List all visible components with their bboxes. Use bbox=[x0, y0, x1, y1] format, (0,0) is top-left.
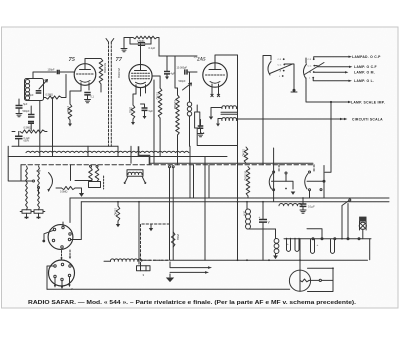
bus H3 bbox=[8, 156, 227, 158]
label R2 bbox=[66, 106, 70, 112]
switch S5 arc bbox=[305, 174, 308, 190]
svg-text:25.000Ω: 25.000Ω bbox=[117, 68, 121, 78]
label R6 bbox=[129, 107, 132, 113]
capacitor C17 pair bbox=[331, 239, 335, 254]
capacitor C13 electrolytic bbox=[259, 202, 271, 229]
wire C5 bbox=[30, 106, 32, 131]
tube V3 lead arrows bbox=[211, 94, 220, 96]
switch S2 contacts bbox=[312, 58, 315, 78]
switch S4 wire bbox=[285, 174, 287, 181]
svg-text:0.1MΩ: 0.1MΩ bbox=[242, 149, 245, 157]
svg-text:RADIO SAFAR. — Mod. « 544 ». –: RADIO SAFAR. — Mod. « 544 ». – Parte riv… bbox=[28, 300, 357, 306]
switch S1 wiper bbox=[270, 64, 293, 74]
capacitor C15 pair bbox=[295, 238, 299, 251]
socket SK2 left lead bbox=[47, 266, 54, 289]
label R16 bbox=[243, 171, 246, 181]
switch S2 wiper bbox=[305, 63, 325, 75]
label 100pF C2 bbox=[48, 69, 56, 72]
capacitor C8 5u bbox=[142, 108, 148, 110]
label R4 bbox=[24, 126, 32, 129]
wire V1 plate top bbox=[85, 59, 101, 64]
wire T1 top to grid bbox=[33, 72, 56, 79]
socket SK1 bottom leads bbox=[60, 250, 71, 260]
capacitor C7 0.1 bbox=[138, 43, 145, 45]
transformer T2 primary bbox=[222, 106, 237, 109]
heater coil L5 bbox=[104, 259, 142, 261]
capacitor C19 5uF bbox=[16, 99, 28, 117]
label DP bbox=[37, 170, 42, 173]
svg-text:0.5MΩ: 0.5MΩ bbox=[60, 191, 68, 194]
svg-text:75: 75 bbox=[69, 56, 76, 63]
switch S1 contact labels bbox=[278, 59, 282, 78]
svg-text:0.1μF: 0.1μF bbox=[149, 46, 156, 50]
wire V1 cathode drop bbox=[70, 91, 81, 104]
label lamp scale bbox=[351, 101, 385, 105]
vertical x273 bbox=[273, 148, 275, 201]
resistor R16 bbox=[246, 167, 250, 199]
wire C9 bbox=[165, 56, 169, 80]
tube V3 envelope bbox=[203, 63, 227, 87]
wire v118 bbox=[117, 146, 119, 156]
socket SK2 bbox=[49, 260, 75, 286]
label shield bbox=[117, 68, 121, 78]
wire C7 bbox=[130, 38, 151, 45]
contact pair bbox=[169, 166, 175, 260]
box right edge bbox=[323, 166, 325, 199]
wire box left bbox=[20, 165, 22, 181]
wire V2 sg bbox=[153, 80, 155, 163]
rail junctions bbox=[246, 259, 301, 261]
wire R10 bbox=[56, 188, 84, 197]
capacitor C10 10000pF bbox=[185, 69, 187, 74]
speaker frame bbox=[308, 268, 334, 291]
speaker SP cone bbox=[289, 270, 310, 291]
junction scala bbox=[330, 101, 332, 103]
wire R6 bbox=[131, 94, 136, 125]
label C9 bbox=[171, 73, 176, 76]
label plug 3 bbox=[143, 273, 145, 277]
coil L1 bbox=[187, 102, 191, 116]
label C18 bbox=[308, 205, 315, 209]
grid capacitor C2 bbox=[57, 70, 59, 74]
bus junction dots bbox=[117, 197, 304, 261]
speaker field coil L2 bbox=[279, 204, 302, 206]
resistor R11 top circle bbox=[90, 165, 92, 167]
label lamp1 bbox=[352, 55, 381, 59]
choke L4 bbox=[268, 229, 279, 259]
socket SK1 pins bbox=[52, 226, 71, 248]
switch S2 stem bbox=[305, 58, 307, 63]
switch S4 wiper bbox=[272, 181, 296, 195]
svg-text:0.5MΩ: 0.5MΩ bbox=[46, 93, 54, 96]
capacitor C1 in T1 bbox=[36, 91, 42, 93]
caption bbox=[28, 300, 357, 306]
tube V1 plate bbox=[80, 64, 91, 70]
bus H6 bbox=[70, 197, 389, 199]
svg-text:C.C: C.C bbox=[308, 66, 312, 68]
switch S5 wiper bbox=[307, 180, 323, 182]
speaker center line bbox=[299, 270, 301, 291]
wire R13 bbox=[116, 202, 120, 228]
switch S4 arc bbox=[269, 174, 272, 190]
wire R7 bbox=[159, 76, 161, 157]
wire R8 bbox=[177, 88, 179, 165]
ground R5 left bbox=[121, 49, 127, 52]
label R7 bbox=[156, 92, 159, 100]
wire lamp line 4 bbox=[313, 78, 352, 82]
speaker voice coil bbox=[300, 279, 309, 282]
svg-text:0.1MΩ: 0.1MΩ bbox=[156, 92, 159, 100]
wire v131 bbox=[130, 146, 132, 163]
tube V2 grids bbox=[132, 73, 150, 79]
switch S3 contacts bbox=[22, 180, 40, 194]
svg-text:2A5: 2A5 bbox=[196, 57, 206, 63]
svg-text:500pF: 500pF bbox=[179, 80, 187, 83]
resistor R8 bbox=[176, 95, 180, 135]
wire T2 right bbox=[237, 55, 238, 260]
wire scala down bbox=[325, 102, 331, 172]
label lamp3 bbox=[354, 71, 375, 75]
wire lamp line 3 bbox=[314, 71, 349, 73]
label C8 bbox=[149, 110, 154, 113]
tube V2 plate bbox=[135, 64, 147, 70]
tube V2 77 label bbox=[116, 56, 123, 63]
wire C2 to V1 grid bbox=[59, 71, 74, 73]
svg-text:C.C: C.C bbox=[278, 65, 282, 67]
svg-text:50.000Ω: 50.000Ω bbox=[103, 63, 107, 73]
svg-text:5μF: 5μF bbox=[23, 103, 28, 106]
noise filter def bbox=[0, 0, 1, 1]
tube V3 plate bbox=[209, 63, 221, 70]
dashed box arrow bbox=[149, 224, 153, 231]
switch S1 arc bbox=[268, 62, 271, 76]
tube V1 leads bbox=[81, 83, 89, 91]
label R8 bbox=[173, 100, 176, 109]
switch S2 contact labels bbox=[308, 59, 312, 79]
wire R1 to C4 bbox=[100, 84, 102, 92]
resistor R3 0.5M bbox=[46, 96, 62, 99]
tube V3 grid bbox=[206, 74, 225, 76]
wire C8 bbox=[141, 104, 147, 119]
label R14 bbox=[176, 234, 179, 240]
capacitor C6 bbox=[15, 136, 23, 138]
fuse F2 bbox=[32, 166, 45, 219]
transformer T2 secondary bbox=[222, 118, 237, 121]
capacitor C16 pair bbox=[311, 239, 319, 254]
ground arrow big bbox=[166, 274, 174, 282]
wire filter bus bbox=[284, 238, 371, 240]
label R1 bbox=[103, 63, 107, 73]
svg-text:LAMPAD. O C.P: LAMPAD. O C.P bbox=[352, 55, 381, 59]
wire T1 bottom bbox=[39, 101, 41, 157]
resistor R4 0.5M bbox=[20, 130, 45, 133]
label R15 bbox=[242, 149, 245, 157]
switch S5 wires bbox=[310, 182, 325, 198]
svg-text:500pF: 500pF bbox=[23, 110, 31, 113]
bus H1b bbox=[200, 145, 238, 147]
trimmer arrow T1 bbox=[39, 80, 48, 90]
svg-text:+: + bbox=[259, 215, 261, 219]
svg-text:10.000pF: 10.000pF bbox=[177, 67, 188, 70]
capacitor C9 4u bbox=[164, 72, 170, 74]
bus H1 bbox=[12, 145, 118, 147]
wire C12 bbox=[198, 120, 204, 137]
resistor block box bbox=[89, 182, 101, 188]
wire lamp line 1 bbox=[314, 56, 352, 60]
switch S6 bbox=[342, 198, 351, 239]
wire T2 sec to scale lamps bbox=[237, 118, 345, 121]
trimmer C11 bbox=[183, 83, 192, 90]
IF transformer T1 primary coil bbox=[25, 80, 29, 101]
vertical x263 top bbox=[262, 148, 264, 165]
socket SK2 pins bbox=[54, 263, 71, 280]
svg-text:500pF: 500pF bbox=[27, 94, 35, 97]
wire left edge bbox=[8, 146, 32, 181]
label R3 bbox=[46, 93, 54, 96]
filter dots bbox=[286, 238, 360, 240]
svg-text:0.5MΩ: 0.5MΩ bbox=[24, 126, 32, 129]
wire C4 down + ground bbox=[85, 95, 91, 103]
wire top link bbox=[159, 56, 197, 88]
resistor R9 box bbox=[195, 112, 200, 128]
svg-text:600V: 600V bbox=[24, 140, 30, 143]
socket SK1 top leads bbox=[63, 198, 70, 226]
shield top bbox=[106, 39, 114, 43]
switch S1 stem bbox=[263, 56, 271, 165]
svg-text:100pF: 100pF bbox=[48, 69, 56, 72]
bus H5 dashed bbox=[21, 164, 313, 166]
svg-text:+: + bbox=[317, 243, 319, 247]
tube V3 cathode bbox=[210, 82, 220, 84]
heater wavy bus bbox=[26, 151, 189, 152]
capacitor C14 pair bbox=[287, 238, 291, 251]
bottom long wire bbox=[47, 288, 290, 290]
resistor R12 top circle bbox=[96, 165, 98, 167]
switch S5 contacts bbox=[309, 171, 326, 191]
resistor R13 bbox=[116, 206, 120, 221]
resistor R6 250 bbox=[131, 105, 135, 119]
svg-text:0.1MΩ: 0.1MΩ bbox=[114, 208, 117, 216]
resistor R15 bbox=[244, 147, 248, 163]
wire T2 sec left ground bbox=[216, 119, 222, 127]
wire right drop bbox=[348, 204, 370, 260]
pilot lamp LP1 bbox=[359, 217, 366, 239]
label C4b bbox=[91, 96, 95, 99]
wire R5 loop bbox=[124, 38, 159, 57]
step wire thick bbox=[139, 146, 150, 165]
tube V1 grid bbox=[77, 73, 94, 75]
label F pin bbox=[72, 288, 74, 291]
label R10 bbox=[60, 191, 68, 194]
socket SK1 bbox=[48, 225, 73, 250]
label L3 bbox=[242, 211, 245, 216]
svg-text:LAMP. O C.F: LAMP. O C.F bbox=[354, 65, 377, 69]
socket SK2 bottom leads bbox=[54, 277, 71, 290]
wire v88 bbox=[87, 146, 89, 156]
wire S2 down bbox=[306, 78, 351, 103]
speaker top dot bbox=[332, 267, 334, 269]
svg-text:LAMP. O L.: LAMP. O L. bbox=[354, 79, 374, 83]
tube V1 75 envelope bbox=[74, 64, 96, 86]
wire R3 to bus bbox=[44, 75, 66, 157]
bus H7 bbox=[81, 201, 389, 203]
svg-text:250Ω: 250Ω bbox=[129, 107, 132, 113]
linkage dashed bbox=[279, 165, 314, 173]
wire rail drops bbox=[263, 229, 322, 271]
wire R10 tap bbox=[75, 180, 92, 182]
wire plug feed bbox=[138, 202, 140, 264]
svg-text:0.1μF: 0.1μF bbox=[308, 205, 315, 209]
dotted lead bbox=[103, 176, 105, 189]
resistor R12 bbox=[95, 168, 99, 182]
capacitor C4 bbox=[84, 93, 90, 95]
capacitor C12 bbox=[198, 126, 204, 128]
label 500pF C1 bbox=[27, 94, 35, 97]
wire V2 plate right bbox=[152, 75, 160, 77]
socket SK1 right lead bbox=[71, 202, 82, 240]
tube V2 leads bbox=[136, 85, 146, 96]
svg-text:CIRCUITI SCALA: CIRCUITI SCALA bbox=[352, 118, 383, 122]
svg-text:LAMP. SCALE IMP.: LAMP. SCALE IMP. bbox=[351, 101, 385, 105]
label C11 bbox=[179, 80, 187, 83]
output arrows bbox=[170, 262, 212, 274]
tube V2 envelope bbox=[129, 64, 152, 87]
tube V3 leads bbox=[212, 84, 219, 96]
resistor R10 bbox=[62, 186, 76, 189]
resistor R7 bbox=[158, 88, 162, 118]
pilot coil T3 bbox=[128, 172, 142, 174]
svg-text:50.000Ω: 50.000Ω bbox=[243, 171, 246, 181]
resistor R5 0.5M top bbox=[133, 36, 157, 39]
bus H4 bbox=[150, 162, 313, 164]
switch S1 contacts bbox=[282, 58, 285, 77]
label R13 bbox=[114, 208, 117, 216]
wire lamp line 2 bbox=[314, 66, 352, 68]
wire V3 plate top bbox=[215, 55, 238, 63]
ground R2 bbox=[68, 120, 72, 127]
fuse F1 bbox=[20, 166, 33, 219]
wire R9 bbox=[197, 105, 237, 146]
socket SK1 left lead bbox=[42, 230, 53, 242]
label C10 bbox=[177, 67, 188, 70]
wire T2 primary left bbox=[209, 108, 222, 120]
tube V2 cathode bbox=[136, 82, 146, 84]
arrow scala wire bbox=[344, 118, 347, 120]
label R5 bbox=[137, 40, 145, 43]
wire bottom rail dashed bbox=[142, 259, 170, 261]
svg-text:30H: 30H bbox=[242, 211, 245, 216]
choke L3 bbox=[246, 202, 260, 229]
label circuiti scala bbox=[352, 118, 383, 122]
svg-text:77: 77 bbox=[116, 56, 123, 63]
shield lines bbox=[109, 42, 112, 146]
capacitor C5 bbox=[28, 115, 35, 124]
dashed box bbox=[141, 224, 171, 264]
resistor R1 50k bbox=[99, 59, 103, 85]
resistor R2 1M bbox=[68, 104, 72, 120]
wire V2 top stem bbox=[140, 44, 142, 64]
label R9 bbox=[201, 132, 205, 135]
label 500pF C5 bbox=[23, 110, 31, 113]
IF transformer T1 box bbox=[25, 79, 44, 101]
label lamp2 bbox=[354, 65, 377, 69]
switch S1 top wire bbox=[284, 64, 294, 89]
wire L1 bbox=[187, 72, 197, 146]
wire bottom rail bbox=[170, 259, 368, 261]
tube V1 cathode bbox=[80, 81, 90, 83]
plug P3 bbox=[137, 264, 151, 271]
switch S3 arc bbox=[47, 173, 52, 193]
svg-text:1 MΩ: 1 MΩ bbox=[66, 106, 70, 112]
svg-text:0.25MΩ: 0.25MΩ bbox=[173, 100, 176, 109]
label lamp4 bbox=[354, 79, 374, 83]
switch S1 terminal bbox=[291, 89, 297, 92]
label C7 bbox=[149, 46, 156, 50]
tube V3 2A5 label bbox=[194, 56, 207, 63]
capacitor C18 bbox=[300, 198, 307, 213]
resistor R14 bbox=[171, 232, 175, 247]
wire C6 leads bbox=[12, 132, 47, 147]
arrow circuiti bbox=[331, 118, 343, 120]
svg-text:250Ω: 250Ω bbox=[176, 234, 179, 240]
svg-text:+: + bbox=[287, 242, 289, 246]
resistor R11 bbox=[89, 168, 93, 182]
transformer T2 core bbox=[221, 112, 238, 114]
verticals mid bbox=[190, 146, 209, 260]
switch S2 arc bbox=[303, 64, 306, 78]
svg-text:5μF: 5μF bbox=[149, 110, 154, 113]
label C6 bbox=[24, 137, 31, 143]
tube V1 75 label bbox=[69, 56, 76, 63]
pilot plug pins bbox=[123, 176, 146, 184]
switch S4 contacts bbox=[273, 171, 287, 191]
wire v70 bbox=[70, 165, 72, 181]
pilot coil T3 box bbox=[127, 170, 143, 176]
svg-text:LAMP. O M.: LAMP. O M. bbox=[354, 71, 375, 75]
speaker terminal bbox=[309, 279, 333, 281]
